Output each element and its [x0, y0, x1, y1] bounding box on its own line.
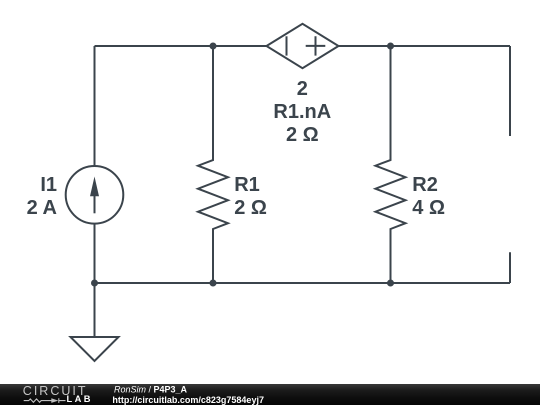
svg-text:http://circuitlab.com/c823g758: http://circuitlab.com/c823g7584eyj7: [112, 395, 264, 405]
svg-text:LAB: LAB: [67, 394, 93, 404]
svg-text:RonSim / P4P3_A: RonSim / P4P3_A: [114, 384, 188, 394]
